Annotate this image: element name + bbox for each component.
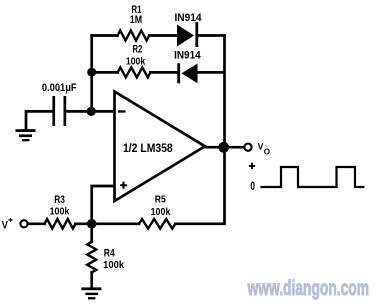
svg-text:100k: 100k: [126, 55, 145, 67]
svg-text:1/2 LM358: 1/2 LM358: [123, 141, 173, 155]
svg-text:IN914: IN914: [175, 12, 203, 24]
svg-text:R3: R3: [54, 194, 65, 206]
svg-text:0: 0: [250, 180, 255, 193]
svg-text:100k: 100k: [50, 206, 70, 218]
svg-text:V: V: [258, 142, 264, 152]
svg-text:R4: R4: [104, 247, 116, 259]
svg-text:O: O: [264, 146, 271, 156]
svg-text:100k: 100k: [103, 259, 124, 271]
svg-text:100k: 100k: [151, 206, 171, 218]
svg-text:www.diangon.com: www.diangon.com: [247, 277, 369, 300]
svg-text:1M: 1M: [130, 14, 142, 26]
svg-text:V: V: [2, 219, 9, 231]
svg-text:IN914: IN914: [174, 50, 201, 62]
svg-text:R2: R2: [133, 43, 143, 55]
svg-text:0.001μF: 0.001μF: [42, 82, 77, 94]
svg-text:R5: R5: [155, 194, 166, 206]
